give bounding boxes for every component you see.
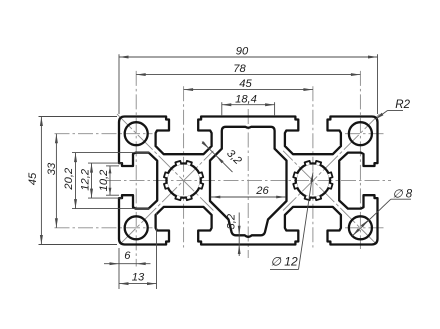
horizontal centerline top-left hole: [55, 133, 153, 135]
dimension line 45 (core spacing): [184, 89, 313, 91]
corner hole 1 (diameter 8): [125, 122, 148, 145]
vertical centerline right core: [312, 86, 314, 247]
core hole 1 (diameter 12) with screw flutes: [166, 163, 200, 197]
svg-text:45: 45: [239, 78, 252, 90]
horizontal centerline bottom-left hole: [55, 227, 153, 229]
extension line slot cavity bottom (20.2): [72, 208, 150, 210]
svg-text:13: 13: [132, 272, 145, 284]
extension line right edge (90): [377, 54, 379, 114]
corner hole 2 (diameter 8): [349, 122, 372, 145]
svg-text:26: 26: [255, 185, 269, 197]
svg-text:10,2: 10,2: [98, 169, 110, 192]
horizontal centerline bottom-right hole: [345, 227, 386, 229]
dimension line 13: [119, 283, 157, 285]
dimension line 18.4: [222, 104, 275, 106]
leader line R2: [376, 111, 388, 120]
leader line diameter 12: [299, 172, 314, 269]
leader line diameter 8: [352, 199, 391, 236]
svg-text:33: 33: [46, 162, 58, 175]
dimension line 90: [119, 56, 378, 58]
svg-text:∅ 8: ∅ 8: [393, 188, 413, 200]
vertical centerline right corner holes: [359, 71, 361, 249]
extension line cavity wall (13): [156, 213, 158, 289]
extension line left edge (90): [118, 54, 120, 114]
svg-text:45: 45: [27, 172, 39, 185]
extension line bottom edge (45): [39, 244, 118, 246]
vertical centerline left core: [183, 86, 185, 247]
svg-text:18,4: 18,4: [235, 93, 257, 105]
extension line mouth top (10.2): [106, 165, 119, 167]
extension line top edge (45): [39, 116, 118, 118]
svg-text:3,2: 3,2: [225, 213, 237, 229]
dimension line 10.2: [109, 166, 111, 195]
leader underline diameter 12: [270, 268, 299, 270]
dimension line 3.2 bottom wall: [238, 213, 240, 257]
svg-text:78: 78: [233, 63, 246, 75]
corner hole 3 (diameter 8): [125, 216, 148, 239]
svg-text:90: 90: [236, 45, 249, 57]
extension line mouth step bottom (12.2): [88, 197, 122, 199]
svg-text:12,2: 12,2: [80, 168, 92, 191]
extension line slot cavity top (20.2): [72, 152, 150, 154]
svg-text:∅ 12: ∅ 12: [271, 255, 298, 269]
dimension line 26: [211, 196, 286, 198]
extension line left edge bottom (6/13): [118, 248, 120, 289]
dimension line 20.2: [75, 153, 77, 209]
vertical centerline left corner holes: [135, 71, 137, 267]
dimension line 6: [104, 263, 151, 265]
central cavity: [210, 127, 287, 237]
horizontal centerline top-right hole: [345, 133, 386, 135]
extension line neck left (18.4): [221, 102, 223, 116]
svg-text:20,2: 20,2: [63, 167, 75, 191]
svg-text:R2: R2: [395, 99, 410, 111]
horizontal axis centerline: [106, 180, 391, 182]
leader underline diameter 8: [391, 198, 411, 200]
vertical centerline profile middle: [247, 109, 249, 258]
corner hole 4 (diameter 8): [349, 216, 372, 239]
diagonal centerline top-left to left core: [117, 114, 213, 210]
diagonal centerline bottom-left to left core: [121, 151, 214, 244]
extension line neck right (18.4): [274, 102, 276, 116]
diagonal centerline bottom-right to right core: [283, 151, 376, 244]
core hole 2 (diameter 12) with screw flutes: [296, 163, 330, 197]
extension line mouth bottom (10.2): [106, 194, 119, 196]
svg-text:6: 6: [124, 250, 131, 262]
dimension line 33: [55, 134, 57, 228]
diagonal centerline top-right to right core: [283, 114, 379, 210]
profile outer contour with T-slots: [119, 117, 378, 245]
leader underline R2: [388, 110, 404, 112]
dimension line 3.2 slanted wall: [202, 142, 233, 173]
extension line mouth step top (12.2): [88, 162, 122, 164]
dimension line 45 left: [40, 117, 42, 245]
dimension line 78: [136, 74, 360, 76]
dimension line 12.2: [91, 163, 93, 198]
